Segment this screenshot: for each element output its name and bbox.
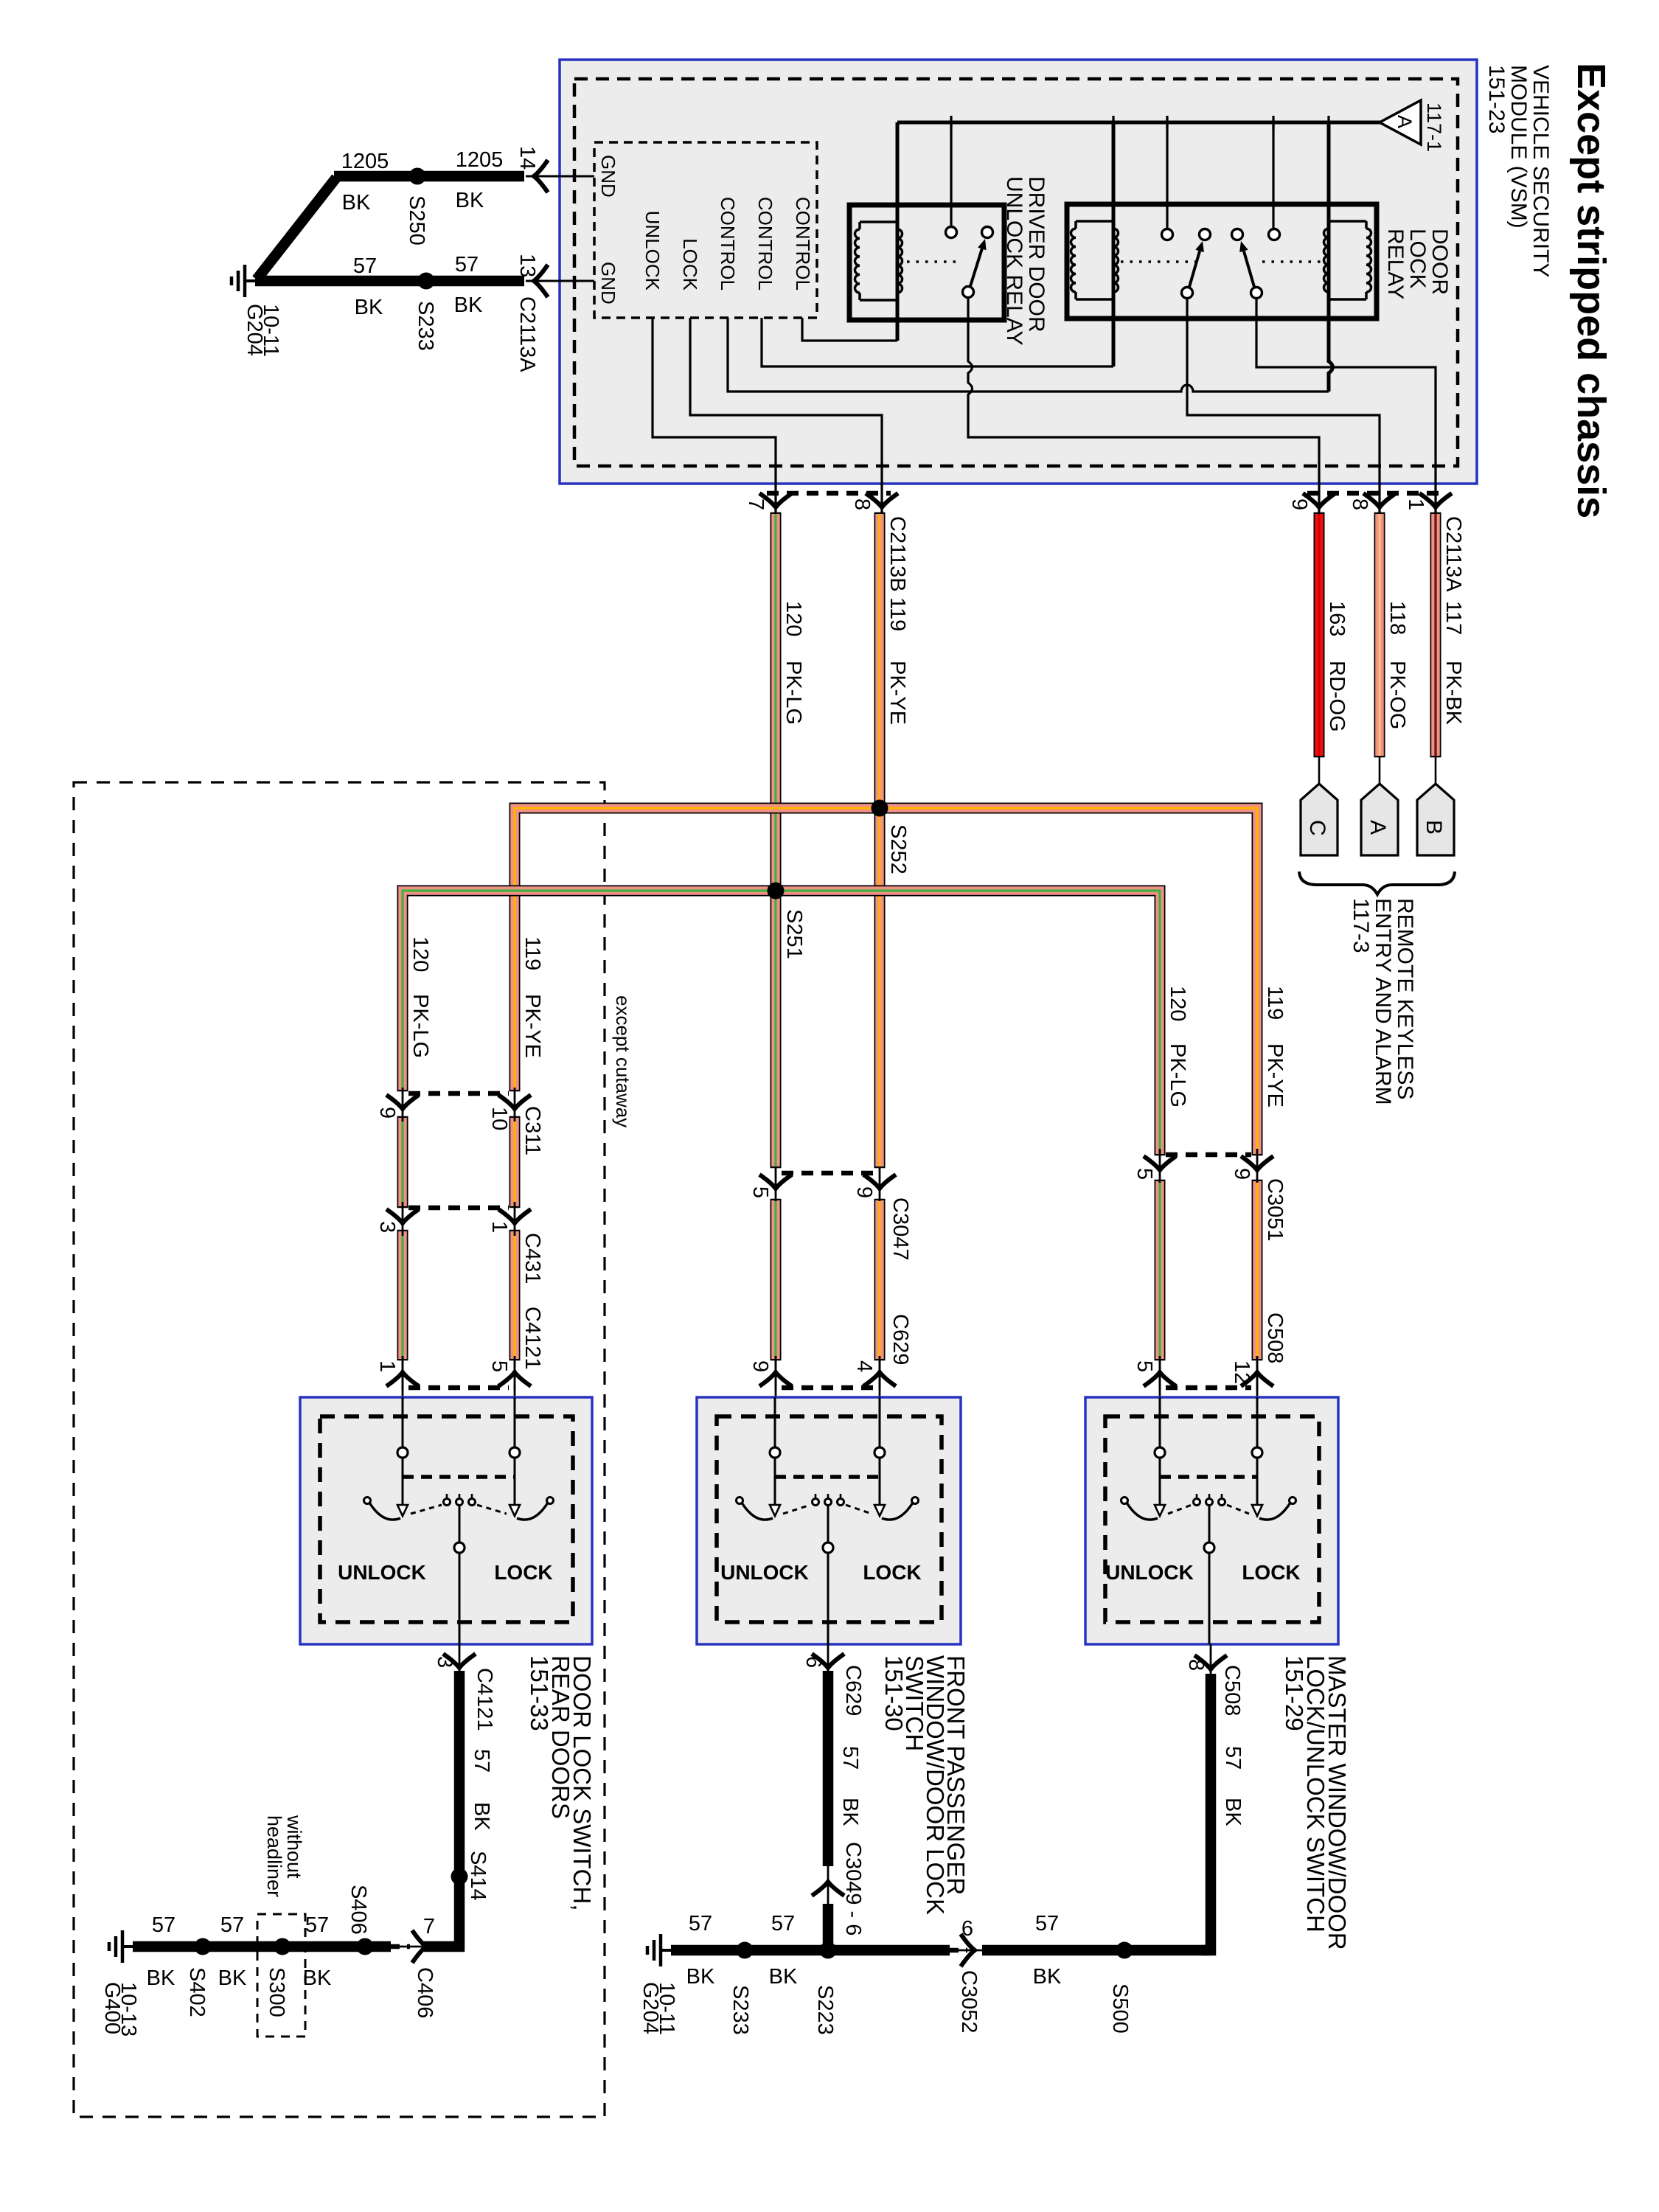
wire 119 PK-YE lower segment: [874, 1199, 886, 1360]
svg-text:BK: BK: [355, 296, 383, 319]
feed wire from connector 117-1: [897, 121, 1381, 125]
wire 57 BK segment: [255, 276, 524, 287]
svg-text:except cutaway: except cutaway: [612, 995, 634, 1127]
svg-text:1205: 1205: [456, 148, 504, 172]
splice S233 (bottom): [737, 1942, 754, 1959]
svg-text:A: A: [1366, 820, 1390, 835]
relay 1 coil feed (thick vertical): [896, 122, 900, 341]
VSM module inner dashed border: [574, 79, 1458, 466]
svg-text:C4121: C4121: [473, 1668, 496, 1731]
connector C3051: [1166, 1152, 1251, 1158]
svg-text:BK: BK: [1221, 1798, 1245, 1826]
relay 1 actuation dots: [907, 260, 959, 263]
relay 2 contact feed left: [1166, 122, 1168, 229]
svg-text:MODULE (VSM): MODULE (VSM): [1506, 65, 1531, 229]
svg-text:UNLOCK: UNLOCK: [1105, 1561, 1194, 1584]
svg-text:ENTRY AND ALARM: ENTRY AND ALARM: [1371, 898, 1395, 1105]
svg-text:S402: S402: [185, 1967, 209, 2017]
svg-text:C431: C431: [521, 1233, 544, 1284]
svg-text:CONTROL: CONTROL: [792, 197, 814, 291]
wire 120 PK-LG (C3051-C508): [1155, 1180, 1166, 1360]
relay 1 contact feed: [950, 122, 952, 227]
svg-text:BK: BK: [470, 1802, 493, 1831]
relay 2 box (door lock relay): [1067, 204, 1377, 319]
svg-text:DRIVER DOOR: DRIVER DOOR: [1024, 176, 1048, 333]
svg-text:S414: S414: [466, 1851, 490, 1901]
svg-text:S252: S252: [886, 824, 910, 874]
wire 119 PK-YE (C3051-C508): [1252, 1180, 1263, 1360]
svg-text:5: 5: [487, 1360, 511, 1372]
svg-text:BK: BK: [342, 191, 371, 215]
svg-text:3: 3: [375, 1221, 399, 1233]
svg-text:57: 57: [305, 1913, 329, 1937]
svg-text:5: 5: [748, 1186, 772, 1198]
without headliner dashed box: [257, 1914, 305, 2037]
connector C3049: [827, 1862, 829, 1908]
svg-text:GND: GND: [597, 155, 619, 198]
relay 1 contact arm: [970, 248, 982, 286]
wire 120 PK-LG lower segment: [771, 1199, 782, 1360]
svg-text:6: 6: [801, 1656, 825, 1668]
wire 119 PK-YE (pin 8): [874, 512, 886, 1168]
svg-text:57: 57: [838, 1746, 862, 1770]
module pin 8 exit arrow: [1363, 493, 1396, 507]
relay 2 contact feed right: [1272, 122, 1274, 229]
svg-text:PK-YE: PK-YE: [886, 661, 909, 725]
svg-text:1: 1: [375, 1360, 399, 1372]
svg-text:C: C: [1305, 820, 1329, 836]
wire 118 PK-OG: [1374, 512, 1385, 757]
connector triangle 117-1 A: [1380, 100, 1421, 145]
wire relay 1 contact to pin 9: [968, 297, 1319, 514]
svg-text:C2113B: C2113B: [886, 516, 909, 592]
svg-text:7: 7: [744, 498, 768, 510]
svg-text:163: 163: [1325, 601, 1349, 636]
wire 57 BK from front switch (upper): [823, 1671, 834, 1866]
svg-text:57: 57: [1035, 1912, 1059, 1935]
box1 output pin 3 arrow: [459, 1644, 461, 1671]
wire 57 BK bus (left): [133, 1941, 391, 1952]
svg-text:VEHICLE SECURITY: VEHICLE SECURITY: [1528, 65, 1553, 277]
connector C4121 entries: [408, 1385, 509, 1391]
svg-text:PK-LG: PK-LG: [408, 994, 432, 1058]
svg-text:57: 57: [220, 1913, 244, 1937]
svg-text:LOCK: LOCK: [494, 1561, 552, 1584]
svg-text:119: 119: [886, 597, 909, 631]
svg-text:151-29: 151-29: [1281, 1655, 1308, 1731]
wire 57 BK bus (right of C3052): [982, 1945, 1211, 1956]
svg-text:57: 57: [152, 1913, 175, 1937]
splice S250: [409, 168, 426, 185]
svg-text:S300: S300: [265, 1967, 288, 2017]
ground G204 (top left): [245, 279, 255, 282]
svg-text:S233: S233: [414, 301, 437, 351]
svg-text:10-11: 10-11: [259, 304, 282, 357]
relay 2 left coil feed (thick vertical): [1112, 122, 1116, 366]
svg-text:BK: BK: [454, 293, 483, 317]
svg-text:C3052: C3052: [957, 1970, 981, 2033]
svg-text:117: 117: [1441, 601, 1465, 635]
splice S300: [274, 1938, 291, 1955]
wire CONTROL to relay 2 right coil: [728, 318, 1329, 392]
svg-text:UNLOCK: UNLOCK: [720, 1561, 809, 1584]
svg-text:10-13: 10-13: [116, 1982, 140, 2037]
wire 57 BK from front switch (lower): [823, 1904, 834, 1950]
relay 2 left coil: [1071, 229, 1076, 292]
box3 input pin 8 arrow: [1210, 1644, 1212, 1674]
master window/door lock/unlock switch (box): [1085, 1397, 1338, 1644]
svg-text:14: 14: [515, 146, 539, 170]
svg-text:C508: C508: [1220, 1665, 1244, 1716]
svg-text:5: 5: [1133, 1168, 1156, 1180]
wire 163 RD-OG: [1314, 512, 1325, 757]
pin 14 line into module: [526, 175, 594, 178]
svg-text:118: 118: [1385, 601, 1409, 635]
module pin 8 exit arrow: [866, 493, 898, 507]
svg-text:LOCK: LOCK: [863, 1561, 921, 1584]
wire relay 2 right contact to pin 1: [1256, 297, 1436, 514]
svg-text:8: 8: [1184, 1659, 1208, 1671]
svg-text:12: 12: [1230, 1360, 1253, 1384]
svg-text:8: 8: [1348, 498, 1371, 510]
svg-text:BK: BK: [456, 189, 484, 212]
wire 57 BK stub to C406: [424, 1941, 437, 1952]
connector flag C: [1301, 784, 1338, 855]
svg-text:C3051: C3051: [1263, 1178, 1287, 1241]
svg-text:C2113A: C2113A: [515, 296, 539, 372]
VSM internal connector sub-box (dashed): [594, 142, 817, 318]
svg-text:S250: S250: [405, 195, 428, 246]
svg-text:120: 120: [782, 601, 805, 636]
wire 119 PK-YE (C311-C431): [509, 1116, 521, 1208]
relay 2 actuation dots: [1121, 260, 1196, 263]
svg-text:10: 10: [487, 1107, 511, 1130]
svg-text:C629: C629: [888, 1314, 912, 1365]
splice S414: [451, 1868, 468, 1885]
connector C629 entries: [782, 1385, 874, 1391]
svg-text:PK-BK: PK-BK: [1441, 661, 1465, 726]
connector C431: [408, 1206, 509, 1211]
svg-text:1: 1: [1404, 498, 1427, 510]
relay 2 contact arms: [1189, 251, 1200, 287]
relay 2 right coil: [1366, 229, 1371, 292]
svg-text:UNLOCK: UNLOCK: [338, 1561, 426, 1584]
svg-text:PK-YE: PK-YE: [1263, 1043, 1287, 1107]
lead to connector A: [1379, 756, 1381, 785]
svg-text:9: 9: [375, 1107, 399, 1119]
lead to connector B: [1435, 756, 1437, 785]
svg-text:117-3: 117-3: [1349, 898, 1373, 953]
svg-text:S500: S500: [1108, 1983, 1132, 2034]
relay 1 contact terminals: [946, 227, 957, 238]
svg-text:LOCK: LOCK: [1242, 1561, 1300, 1584]
svg-text:9: 9: [852, 1186, 876, 1198]
connector flag B: [1417, 784, 1454, 855]
svg-text:1205: 1205: [341, 150, 389, 173]
svg-text:S406: S406: [347, 1885, 370, 1935]
svg-text:57: 57: [455, 253, 479, 276]
wire 120 PK-LG (pin 7): [771, 512, 782, 1168]
wire 57 BK from rear switch: [437, 1671, 459, 1947]
splice S233: [418, 273, 435, 290]
svg-text:C311: C311: [521, 1106, 544, 1155]
wire 119 PK-YE splice bus (S252): [515, 808, 1257, 1155]
pin 13 arrow: [534, 265, 548, 297]
wire 120 PK-LG splice bus (S251): [403, 891, 1160, 1155]
svg-text:57: 57: [689, 1912, 712, 1935]
brace for remote keyless entry: [1299, 872, 1455, 894]
svg-text:BK: BK: [686, 1965, 715, 1989]
svg-text:S233: S233: [728, 1985, 752, 2035]
wire LOCK to pin 8: [690, 318, 882, 514]
svg-text:120: 120: [1166, 986, 1189, 1021]
wire 120 PK-LG (C431-C4121): [397, 1230, 408, 1360]
svg-text:Except stripped chassis: Except stripped chassis: [1569, 63, 1613, 518]
svg-text:9: 9: [748, 1360, 772, 1372]
ground G400: [122, 1945, 133, 1948]
wire 57 BK to master switch: [1202, 1674, 1211, 1950]
module pin 1 exit arrow: [1419, 493, 1452, 507]
svg-text:13: 13: [515, 254, 539, 277]
splice S500: [1116, 1942, 1133, 1959]
svg-text:C2113A: C2113A: [1441, 516, 1465, 592]
wire 120 PK-LG (C311-C431): [397, 1116, 408, 1208]
wire 117 PK-BK: [1430, 512, 1441, 757]
wire CONTROL to relay 2 left coil: [762, 318, 1113, 366]
svg-text:B: B: [1422, 820, 1446, 835]
svg-text:BK: BK: [303, 1966, 332, 1990]
relay 1 coil: [855, 229, 860, 293]
svg-text:PK-LG: PK-LG: [1166, 1043, 1189, 1107]
wire UNLOCK to pin 7: [653, 318, 776, 514]
splice S223: [820, 1942, 837, 1959]
svg-text:151-33: 151-33: [526, 1655, 553, 1731]
wire 1205 BK segment: [334, 171, 524, 182]
module pin 7 exit arrow: [759, 493, 792, 507]
svg-text:PK-OG: PK-OG: [1385, 661, 1409, 729]
svg-text:S251: S251: [782, 909, 806, 959]
ground G204 (bottom): [661, 1949, 671, 1952]
svg-text:4: 4: [852, 1360, 876, 1372]
svg-text:7: 7: [423, 1915, 435, 1938]
svg-text:PK-YE: PK-YE: [521, 994, 544, 1058]
door lock switch rear doors (box): [300, 1397, 592, 1644]
svg-text:151-23: 151-23: [1484, 65, 1509, 133]
wire relay 2 left contact to pin 8: [1187, 297, 1380, 514]
connector C406: [391, 1946, 442, 1948]
splice S252: [872, 800, 888, 817]
svg-text:LOCK: LOCK: [679, 238, 701, 291]
svg-text:UNLOCK RELAY: UNLOCK RELAY: [1002, 176, 1026, 346]
front passenger window/door lock switch (box): [697, 1397, 961, 1644]
wire 119 PK-YE (C431-C4121): [509, 1230, 521, 1360]
pin 13 line into module: [526, 280, 594, 282]
svg-text:PK-LG: PK-LG: [782, 661, 805, 725]
svg-text:BK: BK: [1033, 1965, 1062, 1989]
svg-text:117-1: 117-1: [1423, 102, 1445, 152]
relay 2 right coil feed (thick vertical with hop): [1329, 122, 1333, 392]
svg-text:119: 119: [1263, 986, 1287, 1020]
svg-text:RELAY: RELAY: [1383, 229, 1408, 299]
svg-text:REMOTE KEYLESS: REMOTE KEYLESS: [1393, 898, 1417, 1099]
svg-text:9: 9: [1230, 1168, 1253, 1180]
svg-text:without: without: [283, 1815, 305, 1879]
junction nubs on feed wire: [950, 116, 952, 129]
pin 14 arrow: [534, 160, 548, 192]
svg-text:S223: S223: [813, 1985, 837, 2035]
svg-text:8: 8: [850, 498, 874, 510]
connector C311: [408, 1091, 509, 1096]
svg-text:UNLOCK: UNLOCK: [641, 211, 664, 291]
connector row C2113A dashes: [1307, 491, 1447, 496]
svg-text:57: 57: [1221, 1746, 1245, 1770]
splice S406: [357, 1938, 374, 1955]
leads into switch boxes: [402, 1359, 404, 1397]
svg-text:120: 120: [408, 936, 432, 972]
svg-text:BK: BK: [218, 1966, 247, 1990]
svg-text:3: 3: [433, 1656, 456, 1668]
svg-text:57: 57: [470, 1749, 493, 1773]
except cutaway dashed box: [74, 782, 605, 2117]
svg-text:DOOR: DOOR: [1427, 229, 1452, 295]
svg-text:1: 1: [487, 1221, 511, 1233]
wire 1205 BK diagonal: [257, 178, 336, 279]
connector flag A: [1361, 784, 1398, 855]
svg-text:151-30: 151-30: [880, 1655, 908, 1731]
splice S251: [768, 883, 785, 900]
svg-text:C3047: C3047: [888, 1197, 912, 1260]
relay 2 contact terminals: [1162, 229, 1173, 240]
connector C3047: [782, 1171, 874, 1176]
relay 1 box (driver door unlock relay): [849, 205, 1004, 320]
svg-text:headliner: headliner: [263, 1815, 285, 1897]
svg-text:10-11: 10-11: [655, 1982, 678, 2035]
connector row C2113B dashes: [767, 491, 891, 496]
wire CONTROL to relay 1 coil: [802, 318, 897, 341]
svg-text:57: 57: [353, 254, 377, 278]
splice S402: [195, 1938, 212, 1955]
module pin 9 exit arrow: [1303, 493, 1335, 507]
svg-text:LOCK: LOCK: [1405, 229, 1430, 289]
svg-text:BK: BK: [838, 1798, 862, 1826]
svg-text:GND: GND: [597, 262, 619, 305]
lead to connector C: [1318, 756, 1321, 785]
connector C508 entries: [1166, 1385, 1251, 1391]
svg-text:CONTROL: CONTROL: [717, 197, 739, 291]
svg-text:C4121: C4121: [521, 1307, 544, 1369]
svg-text:9: 9: [1287, 498, 1311, 510]
svg-text:119: 119: [521, 936, 544, 970]
svg-text:CONTROL: CONTROL: [754, 197, 776, 291]
svg-text:5: 5: [1133, 1360, 1156, 1372]
wire 57 BK bus (right): [671, 1945, 950, 1956]
svg-text:BK: BK: [769, 1965, 798, 1989]
connector C3052: [950, 1950, 988, 1952]
svg-text:C3049 - 6: C3049 - 6: [841, 1842, 865, 1935]
svg-text:6: 6: [961, 1917, 973, 1941]
box2 output pin 6 arrow: [827, 1644, 829, 1671]
svg-text:BK: BK: [147, 1966, 175, 1990]
svg-text:C508: C508: [1263, 1312, 1287, 1363]
svg-text:C629: C629: [841, 1665, 865, 1716]
VSM module outer box: [560, 60, 1477, 484]
svg-text:A: A: [1394, 115, 1416, 128]
svg-text:57: 57: [771, 1912, 795, 1935]
svg-text:C406: C406: [413, 1967, 437, 2018]
svg-text:RD-OG: RD-OG: [1325, 661, 1349, 732]
